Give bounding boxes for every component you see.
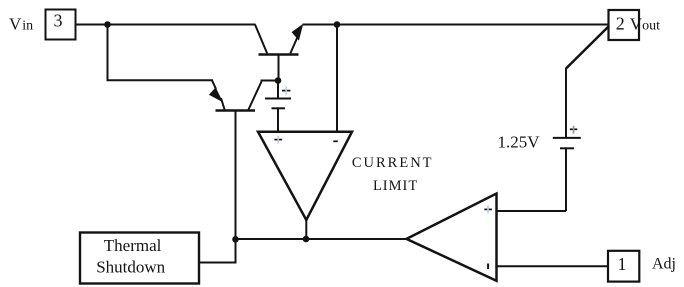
svg-text:2: 2 (616, 13, 625, 33)
battery 1.25V reference (553, 68, 581, 211)
node top rail junction (334, 21, 341, 28)
wire top rail to Q1 collector (108, 24, 256, 26)
node bus junction U1 output (303, 236, 310, 243)
wire Q2 base lead (235, 112, 237, 264)
wire junction down to current limit inverting input (336, 25, 338, 132)
wire pin 3 to input node (77, 24, 108, 26)
op-amp error amplifier U2 (407, 194, 497, 281)
terminal box pin 1 (608, 251, 639, 282)
op-amp current limit U1 (258, 132, 352, 220)
svg-text:Thermal: Thermal (104, 236, 162, 255)
svg-text:1: 1 (618, 254, 627, 274)
transistor Q2 (209, 80, 278, 110)
bus wire to error amp output (236, 238, 406, 240)
svg-text:1.25V: 1.25V (498, 132, 541, 151)
svg-text:Adj: Adj (652, 256, 676, 273)
wire U2 inverting input to Adj (497, 265, 609, 267)
wire top rail Q1 emitter to Vout (303, 24, 609, 26)
node input junction (104, 21, 111, 28)
svg-text:3: 3 (54, 11, 63, 31)
node Q1 base Q2 collector junction (275, 77, 282, 84)
wire reference to Vout terminal (566, 26, 609, 69)
node bus junction Q2 base (232, 236, 239, 243)
svg-text:CURRENT: CURRENT (352, 155, 434, 171)
transistor Q1 (255, 24, 303, 81)
wire thermal shutdown output (200, 262, 237, 264)
terminal box pin 2 (609, 10, 640, 40)
block thermal shutdown (80, 233, 199, 284)
svg-text:Shutdown: Shutdown (96, 258, 165, 277)
wire input node down to Q2 emitter (108, 25, 214, 81)
wire U2 noninverting input to reference (497, 210, 567, 212)
wire U1 output to bus (305, 218, 307, 239)
current source CS1 (265, 81, 291, 132)
svg-text:LIMIT: LIMIT (373, 178, 418, 194)
terminal box pin 3 (46, 10, 76, 40)
